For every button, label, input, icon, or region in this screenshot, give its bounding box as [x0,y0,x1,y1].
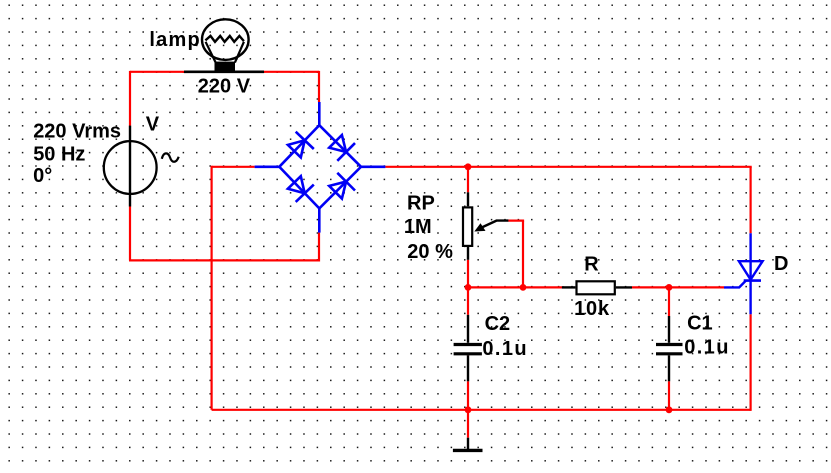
svg-text:0.1u: 0.1u [482,338,528,360]
svg-text:50 Hz: 50 Hz [33,144,85,166]
svg-text:220 V: 220 V [198,76,251,98]
svg-text:0.1u: 0.1u [684,337,730,359]
svg-text:lamp: lamp [149,29,200,51]
svg-text:V: V [146,114,160,136]
svg-text:20 %: 20 % [407,241,453,263]
svg-text:1M: 1M [404,216,432,238]
svg-text:10k: 10k [574,298,610,320]
svg-text:RP: RP [407,193,435,215]
svg-text:220 Vrms: 220 Vrms [33,121,121,143]
svg-text:0°: 0° [33,165,52,187]
svg-text:D: D [774,253,788,275]
svg-text:C2: C2 [485,313,511,335]
svg-text:C1: C1 [687,313,713,335]
svg-text:R: R [584,254,599,276]
